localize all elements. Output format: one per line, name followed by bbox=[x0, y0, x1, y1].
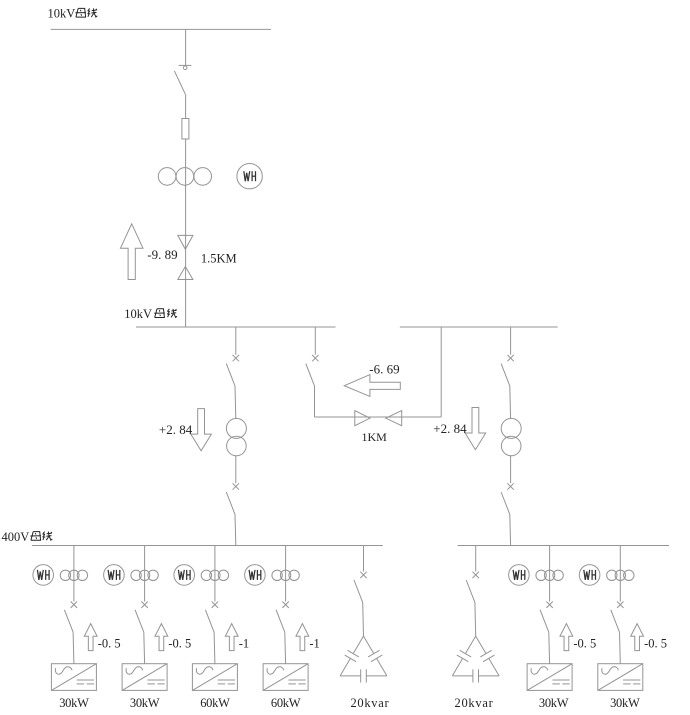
wattmeter WH (M2) bbox=[104, 565, 125, 586]
wire BUS to feeder M5 bbox=[549, 546, 551, 602]
svg-text:1.5KM: 1.5KM bbox=[201, 252, 237, 266]
wire BUS2-right to tie bbox=[440, 327, 442, 417]
capacitor bank 20kvar (C1) bbox=[340, 636, 387, 682]
frequency converter (M2) bbox=[122, 664, 167, 691]
frequency converter (M5) bbox=[527, 664, 572, 691]
breaker (M5) bbox=[540, 602, 553, 633]
wire QS1 to fuse bbox=[185, 94, 187, 118]
wire tie breaker down and across bbox=[315, 386, 442, 417]
breaker (M4) bbox=[276, 602, 289, 633]
wattmeter WH (M4) bbox=[245, 565, 266, 586]
wire breaker to capacitor (C2) bbox=[474, 602, 477, 636]
svg-text:30kW: 30kW bbox=[610, 696, 640, 710]
wattmeter WH (M5) bbox=[509, 565, 530, 586]
power-flow arrow -6.69 bbox=[344, 375, 400, 397]
breaker (C1) bbox=[354, 572, 367, 603]
current transformer CT (M6) bbox=[607, 570, 634, 580]
frequency converter (M1) bbox=[51, 664, 96, 691]
busbar 400V BUS4 right bbox=[458, 545, 670, 547]
cable marker 1.5KM bbox=[178, 235, 193, 279]
wattmeter WH (M6) bbox=[579, 565, 600, 586]
wire breaker to converter (M1) bbox=[72, 632, 75, 664]
svg-text:20kvar: 20kvar bbox=[350, 696, 389, 710]
tie breaker QF-tie bbox=[306, 355, 319, 386]
svg-text:10kV: 10kV bbox=[48, 7, 76, 21]
current transformer CT (M4) bbox=[272, 570, 299, 580]
power-flow arrow -1 (M3) bbox=[225, 624, 238, 651]
wire BUS2 to breaker (T2 right) bbox=[510, 327, 512, 355]
svg-text:-6. 69: -6. 69 bbox=[369, 361, 399, 376]
wattmeter WH (M1) bbox=[33, 565, 54, 586]
wire BUS to capacitor feeder C2 bbox=[475, 546, 477, 572]
svg-text:30kW: 30kW bbox=[539, 696, 569, 710]
svg-text:30kW: 30kW bbox=[59, 696, 89, 710]
breaker QF2 (T2 right) bbox=[501, 483, 514, 514]
wire breaker to 400V bus (T1 left) bbox=[234, 514, 237, 545]
power-flow arrow -0.5 (M1) bbox=[84, 624, 97, 651]
svg-text:+2. 84: +2. 84 bbox=[433, 421, 467, 436]
wire BUS2 to breaker (T1 left) bbox=[235, 327, 237, 355]
busbar 10kV BUS2 left section bbox=[136, 326, 336, 328]
wire BUS to feeder M1 bbox=[73, 546, 75, 602]
svg-text:10kV: 10kV bbox=[124, 307, 152, 321]
power-flow arrow +2.84 left bbox=[191, 409, 212, 451]
svg-text:30kW: 30kW bbox=[130, 696, 160, 710]
breaker (M6) bbox=[611, 602, 624, 633]
busbar 10kV BUS2 right section bbox=[400, 326, 558, 328]
wire BUS2-left to tie breaker bbox=[314, 327, 316, 355]
wire BUS to feeder M4 bbox=[285, 546, 287, 602]
svg-text:-0. 5: -0. 5 bbox=[644, 636, 667, 650]
breaker QF (T2 right) bbox=[501, 355, 514, 386]
power-flow arrow -0.5 (M2) bbox=[155, 624, 168, 651]
power-flow arrow -0.5 (M6) bbox=[631, 624, 644, 651]
wattmeter WH (M3) bbox=[174, 565, 195, 586]
current transformer CT (M3) bbox=[201, 570, 228, 580]
power-flow arrow +2.84 right bbox=[465, 408, 486, 450]
svg-text:-1: -1 bbox=[239, 636, 249, 650]
svg-text:-0. 5: -0. 5 bbox=[573, 636, 596, 650]
current transformer CT (M5) bbox=[536, 570, 563, 580]
wire BUS to feeder M2 bbox=[144, 546, 146, 602]
wire breaker to converter (M6) bbox=[619, 632, 622, 664]
breaker QF (T1 left) bbox=[226, 355, 239, 386]
current transformer CT1 (3 cores) bbox=[158, 168, 211, 186]
power-flow arrow -1 (M4) bbox=[296, 624, 309, 651]
wattmeter WH1 bbox=[237, 164, 262, 189]
svg-text:60kW: 60kW bbox=[271, 696, 301, 710]
breaker (M2) bbox=[135, 602, 148, 633]
label 10kV母线 BUS2 bbox=[124, 307, 177, 321]
fuse FU1 bbox=[182, 119, 189, 140]
wire breaker to transformer (T1 left) bbox=[234, 386, 237, 419]
wire breaker to converter (M3) bbox=[213, 632, 216, 664]
wire BUS to feeder M6 bbox=[619, 546, 621, 602]
disconnector QS1 bbox=[174, 65, 191, 94]
wire breaker to 400V bus (T2 right) bbox=[509, 514, 512, 545]
current transformer CT (M2) bbox=[131, 570, 158, 580]
wire transformer to breaker (T1 left) bbox=[235, 456, 237, 483]
breaker (M1) bbox=[64, 602, 77, 633]
label 10kV母线 BUS1 bbox=[48, 7, 98, 21]
power-flow arrow -9.89 bbox=[120, 224, 143, 280]
svg-text:+2. 84: +2. 84 bbox=[159, 422, 193, 437]
wire BUS to feeder M3 bbox=[214, 546, 216, 602]
label 400V母线 bbox=[2, 530, 53, 544]
svg-text:-0. 5: -0. 5 bbox=[98, 636, 121, 650]
wire breaker to converter (M2) bbox=[143, 632, 146, 664]
busbar 400V BUS3 left bbox=[32, 545, 383, 547]
capacitor bank 20kvar (C2) bbox=[452, 636, 499, 682]
wire fuse to CTs and cable marker bbox=[185, 139, 187, 235]
wire breaker to converter (M5) bbox=[548, 632, 551, 664]
wire breaker to transformer (T2 right) bbox=[509, 386, 512, 419]
svg-text:-1: -1 bbox=[309, 636, 319, 650]
frequency converter (M3) bbox=[192, 664, 237, 691]
wire BUS1 to disconnector bbox=[185, 29, 187, 65]
svg-text:60kW: 60kW bbox=[200, 696, 230, 710]
breaker QF2 (T1 left) bbox=[226, 483, 239, 514]
frequency converter (M6) bbox=[598, 664, 643, 691]
wire breaker to converter (M4) bbox=[284, 632, 287, 664]
transformer T (T1 left) bbox=[226, 418, 246, 455]
svg-text:20kvar: 20kvar bbox=[455, 696, 494, 710]
busbar 10kV BUS1 bbox=[51, 28, 271, 30]
cable marker 1KM bbox=[355, 411, 402, 426]
frequency converter (M4) bbox=[263, 664, 308, 691]
svg-text:400V: 400V bbox=[2, 530, 30, 544]
wire breaker to capacitor (C1) bbox=[362, 602, 365, 636]
transformer T (T2 right) bbox=[501, 418, 521, 455]
breaker (C2) bbox=[466, 572, 479, 603]
power-flow arrow -0.5 (M5) bbox=[560, 624, 573, 651]
wire transformer to breaker (T2 right) bbox=[510, 456, 512, 483]
wire cable marker to BUS2 bbox=[185, 235, 187, 327]
svg-text:-0. 5: -0. 5 bbox=[168, 636, 191, 650]
current transformer CT (M1) bbox=[60, 570, 87, 580]
breaker (M3) bbox=[205, 602, 218, 633]
wire BUS to capacitor feeder C1 bbox=[363, 546, 365, 572]
svg-text:1KM: 1KM bbox=[362, 430, 388, 444]
svg-text:-9. 89: -9. 89 bbox=[147, 247, 177, 262]
